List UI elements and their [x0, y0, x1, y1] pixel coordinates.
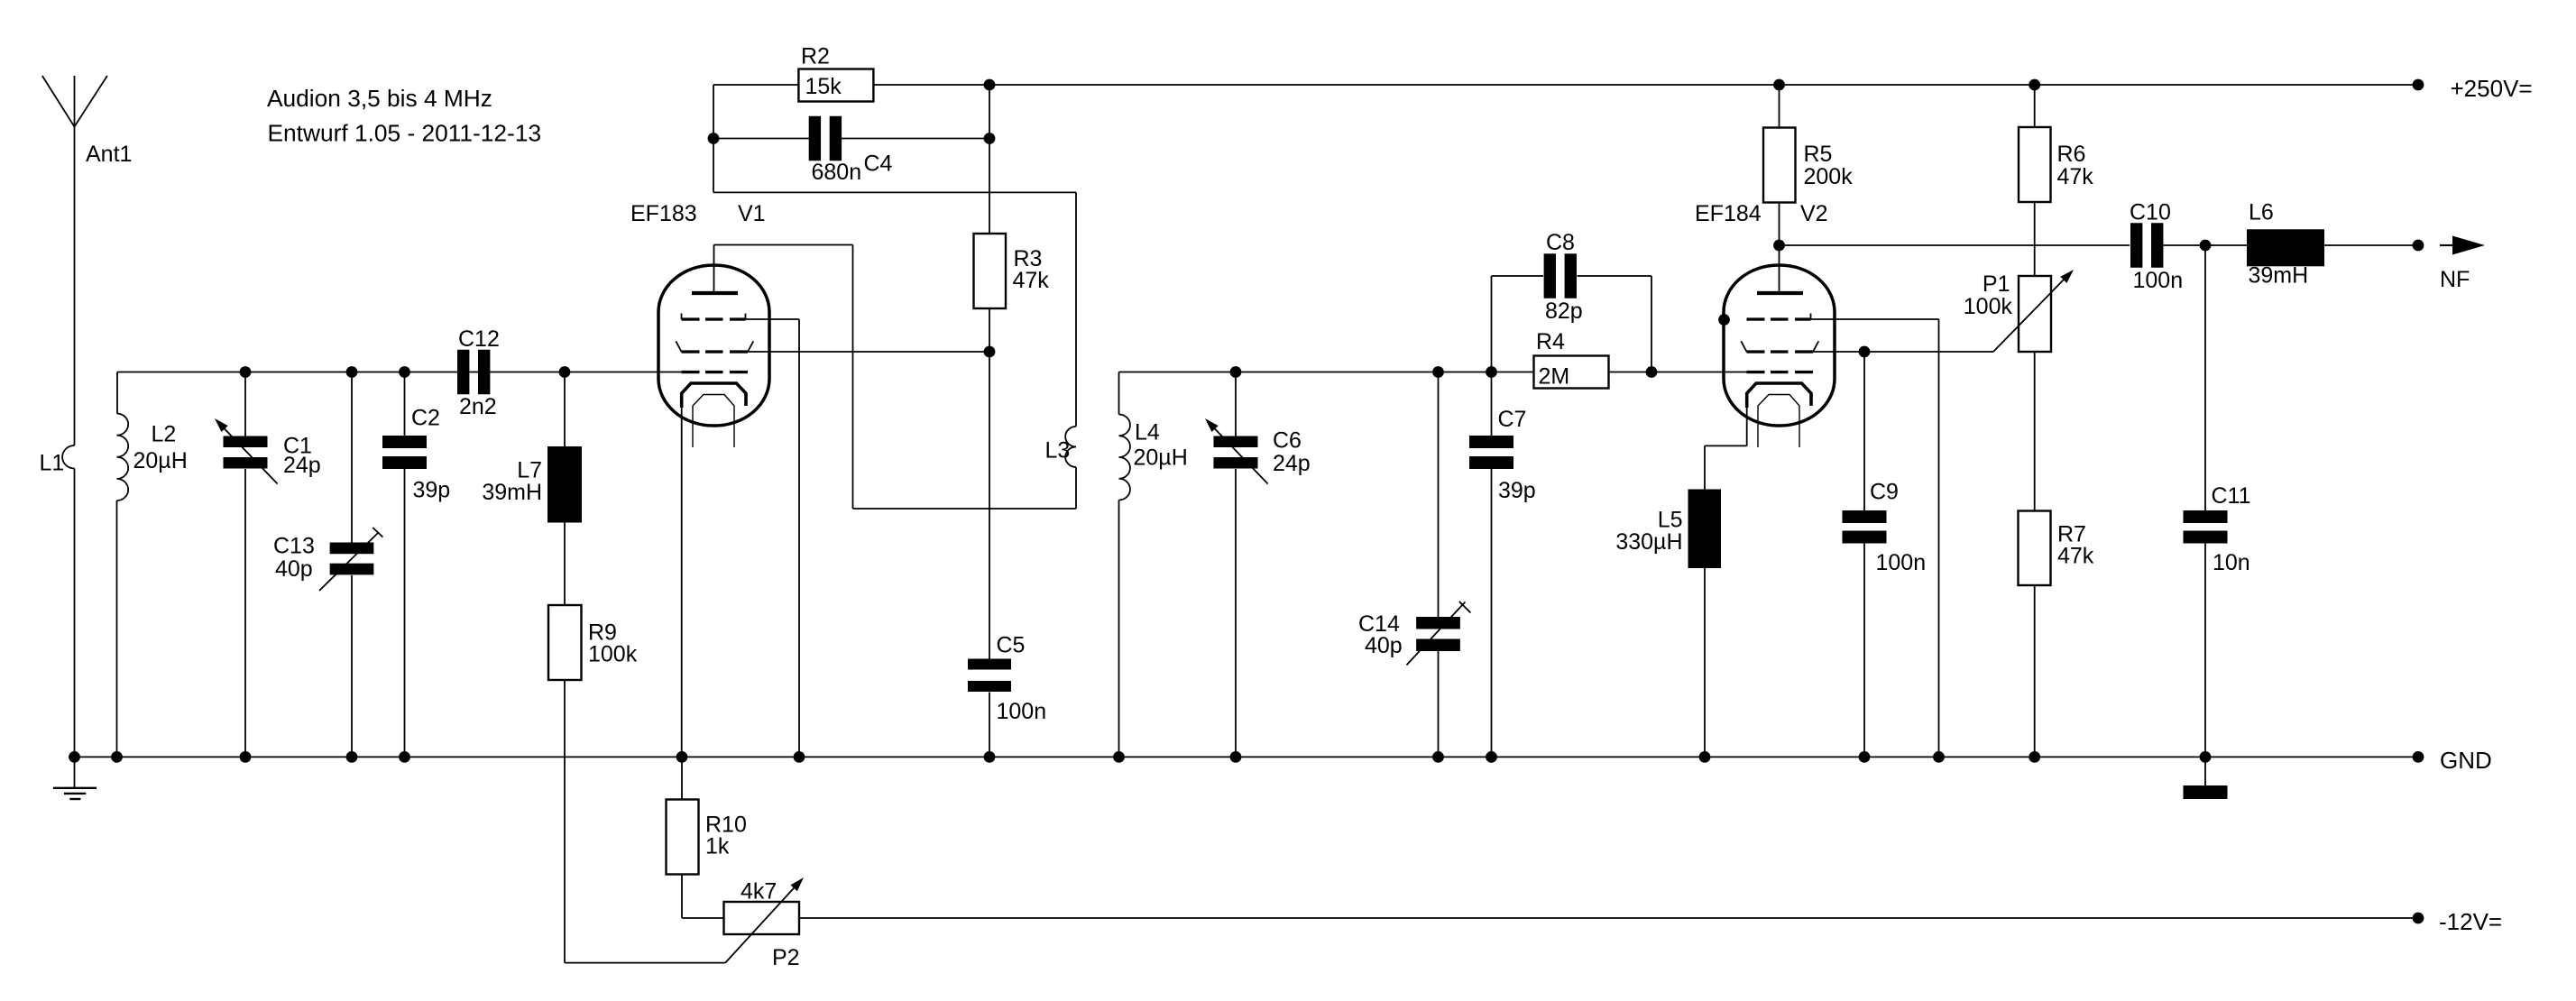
- wire rail to R5: [1779, 85, 1780, 128]
- svg-text:24p: 24p: [1273, 451, 1311, 476]
- wire node B to L3 top: [713, 192, 1076, 427]
- svg-text:100n: 100n: [997, 699, 1047, 724]
- svg-text:GND: GND: [2440, 747, 2492, 774]
- junction C9-GND: [1859, 751, 1871, 763]
- svg-text:R4: R4: [1536, 329, 1565, 354]
- inductor L4: [1119, 415, 1188, 500]
- wire L7 top: [564, 372, 566, 447]
- potentiometer P2: [724, 877, 805, 970]
- svg-text:15k: 15k: [805, 74, 842, 99]
- resistor R7: [2019, 511, 2094, 586]
- svg-text:C12: C12: [458, 326, 500, 352]
- svg-text:82p: 82p: [1545, 298, 1583, 324]
- tube V1 anode plate: [692, 291, 738, 295]
- svg-text:Audion 3,5 bis 4 MHz: Audion 3,5 bis 4 MHz: [267, 85, 492, 112]
- junction C7-GND: [1486, 751, 1497, 763]
- junction R3-g2 node: [984, 346, 996, 358]
- svg-text:2n2: 2n2: [459, 394, 497, 419]
- svg-text:EF183: EF183: [630, 201, 697, 226]
- wire V1 anode lead: [713, 245, 715, 294]
- wire C9 top: [1863, 352, 1865, 510]
- capacitor C7: [1469, 407, 1536, 503]
- svg-text:L1: L1: [40, 451, 65, 476]
- capacitor C13: [273, 528, 382, 591]
- wire L2 bottom: [116, 500, 118, 757]
- junction g2-C9: [1859, 346, 1871, 358]
- svg-text:R5: R5: [1804, 142, 1833, 167]
- capacitor C6: [1205, 418, 1311, 484]
- wire R3 to C5: [989, 308, 990, 659]
- svg-text:-12V=: -12V=: [2439, 908, 2502, 935]
- wire GND rail: [75, 756, 2419, 758]
- resistor R3: [974, 234, 1050, 308]
- terminal NF: [2413, 236, 2485, 293]
- tube V2 cathode: [1747, 383, 1811, 408]
- wire R2 left: [713, 85, 798, 192]
- junction L5-GND: [1699, 751, 1711, 763]
- svg-text:C9: C9: [1870, 480, 1899, 505]
- wire L3 bottom: [1075, 467, 1077, 509]
- svg-text:20µH: 20µH: [1134, 445, 1188, 471]
- svg-text:C2: C2: [411, 406, 440, 431]
- wire L4 bottom: [1118, 500, 1120, 758]
- wire C2 bottom: [404, 469, 406, 757]
- chassis bar: [2184, 757, 2228, 799]
- tube V2 envelope: [1724, 265, 1835, 426]
- svg-text:V2: V2: [1800, 201, 1828, 226]
- svg-text:P2: P2: [772, 945, 800, 970]
- svg-text:NF: NF: [2440, 267, 2470, 292]
- svg-text:10n: 10n: [2213, 550, 2250, 575]
- antenna Ant1: [42, 76, 133, 445]
- resistor R6: [2019, 127, 2093, 202]
- inductor L1: [40, 445, 75, 476]
- inductor L5: [1615, 490, 1721, 569]
- inductor L2: [117, 414, 188, 501]
- junction C5-GND: [984, 751, 996, 763]
- tube V2 heater: [1758, 395, 1799, 448]
- wire L6 to NF: [2324, 244, 2418, 246]
- svg-text:P1: P1: [1983, 271, 2010, 297]
- svg-text:4k7: 4k7: [741, 879, 777, 905]
- wire C2 top: [404, 372, 406, 436]
- capacitor C14: [1358, 602, 1470, 665]
- wire L5 to GND: [1704, 568, 1706, 757]
- wire V1 g3 to GND: [746, 319, 800, 757]
- svg-text:200k: 200k: [1804, 164, 1854, 189]
- capacitor C11: [2184, 483, 2251, 575]
- wire C6 bottom: [1235, 469, 1237, 757]
- svg-text:C11: C11: [2212, 483, 2251, 509]
- potentiometer P1: [1964, 270, 2074, 352]
- wire R6 to P1: [2034, 202, 2036, 276]
- svg-text:39p: 39p: [413, 478, 451, 503]
- wire C4 right lead: [842, 138, 989, 140]
- wire C7 bottom: [1491, 469, 1493, 757]
- tube V1 grid g2: [676, 341, 753, 353]
- svg-text:40p: 40p: [1365, 633, 1403, 658]
- wire GND to R10: [681, 757, 683, 799]
- wire C5 to GND: [989, 693, 990, 758]
- wire C1 top: [244, 372, 246, 436]
- junction C4 right: [984, 133, 996, 144]
- svg-text:39p: 39p: [1498, 478, 1536, 503]
- svg-text:C10: C10: [2130, 200, 2171, 225]
- wire C9 bottom: [1863, 544, 1865, 758]
- tube V2 grid g1: [1747, 371, 1814, 373]
- wire V2 cathode to L5: [1705, 400, 1747, 490]
- wire C6 top: [1235, 372, 1237, 436]
- junction V2 anode: [1773, 240, 1785, 252]
- wire C13 top: [351, 372, 353, 543]
- junction V1-cathode-GND: [676, 751, 688, 763]
- junction rail-R6: [2029, 79, 2040, 91]
- svg-text:24p: 24p: [283, 453, 321, 478]
- svg-text:L3: L3: [1045, 438, 1071, 464]
- svg-text:40p: 40p: [275, 556, 313, 582]
- junction V2 g3 envelope: [1718, 314, 1730, 326]
- junction C7-top: [1486, 366, 1497, 378]
- wire V2 anode lead: [1779, 245, 1780, 293]
- power terminal GND: [2413, 747, 2492, 774]
- power terminal +250V: [2413, 75, 2533, 102]
- svg-text:330µH: 330µH: [1615, 529, 1682, 555]
- junction L4-GND: [1113, 751, 1125, 763]
- power terminal -12V: [2413, 908, 2503, 935]
- wire C1 bottom: [244, 469, 246, 757]
- capacitor C4: [809, 116, 893, 185]
- svg-text:V1: V1: [738, 201, 766, 226]
- wire R10 to P2: [682, 875, 724, 919]
- junction L1-GND: [69, 751, 80, 763]
- resistor R4: [1534, 329, 1609, 390]
- capacitor C10: [2130, 200, 2183, 294]
- junction C8-g1: [1646, 366, 1658, 378]
- junction C1-bus: [240, 366, 252, 378]
- wire V1 g2 to R3 node: [748, 351, 989, 353]
- wire C4 left lead: [713, 138, 809, 140]
- wire R9 to P2 wiper: [565, 680, 725, 963]
- svg-text:Entwurf 1.05 - 2011-12-13: Entwurf 1.05 - 2011-12-13: [268, 120, 542, 147]
- svg-text:100k: 100k: [588, 642, 638, 667]
- svg-text:L4: L4: [1135, 420, 1160, 445]
- svg-text:C5: C5: [997, 633, 1026, 658]
- junction C14-top: [1432, 366, 1444, 378]
- svg-text:1k: 1k: [705, 834, 730, 859]
- svg-text:47k: 47k: [1013, 268, 1050, 293]
- junction rail-R5: [1773, 79, 1785, 91]
- wire rail to R6: [2034, 85, 2036, 127]
- wire C11 top: [2204, 245, 2206, 510]
- capacitor C5: [968, 633, 1046, 725]
- capacitor C12: [457, 326, 500, 419]
- label EF183 V1: [630, 201, 766, 226]
- wire V1 cathode to GND: [681, 400, 683, 757]
- svg-text:39mH: 39mH: [482, 480, 542, 505]
- junction V2-g3-GND: [1933, 751, 1945, 763]
- junction C6-top: [1230, 366, 1242, 378]
- junction L7-bus: [559, 366, 571, 378]
- wire L1 bottom: [74, 469, 76, 758]
- wire R5 to anode: [1779, 203, 1780, 246]
- wire C13 bottom: [351, 575, 353, 757]
- tube V2 grid g3: [1747, 314, 1811, 321]
- wire C10 to L6: [2163, 244, 2247, 246]
- tube V2 grid g2: [1741, 341, 1818, 353]
- wire C11 bottom: [2204, 544, 2206, 758]
- svg-text:Ant1: Ant1: [86, 142, 132, 167]
- junction C2-bus: [399, 366, 410, 378]
- title text: [267, 85, 541, 147]
- junction C2-GND: [399, 751, 410, 763]
- svg-text:100k: 100k: [1964, 294, 2013, 319]
- svg-text:680n: 680n: [812, 160, 862, 185]
- svg-text:C7: C7: [1498, 407, 1527, 432]
- svg-text:2M: 2M: [1539, 364, 1570, 390]
- junction rail-R3 column: [984, 79, 996, 91]
- capacitor C1: [215, 418, 321, 484]
- junction R2C4 left: [708, 133, 720, 144]
- junction C11-GND: [2200, 751, 2212, 763]
- wire V2 g3 to GND: [1811, 319, 1939, 757]
- svg-text:C13: C13: [273, 534, 315, 559]
- svg-text:20µH: 20µH: [133, 448, 188, 473]
- ground symbol: [53, 757, 97, 799]
- label EF184 V2: [1695, 201, 1828, 226]
- resistor R9: [548, 605, 638, 680]
- svg-text:C4: C4: [864, 152, 893, 177]
- resistor R10: [667, 800, 747, 875]
- tube V1 envelope: [658, 265, 769, 426]
- wire P1 to R7: [2034, 352, 2036, 511]
- wire -12V rail: [799, 917, 2418, 919]
- svg-text:100n: 100n: [2133, 268, 2184, 293]
- svg-text:L2: L2: [152, 422, 177, 447]
- wire +250V rail: [874, 84, 2419, 86]
- wire C8 right: [1578, 276, 1652, 372]
- svg-text:R6: R6: [2057, 142, 2086, 167]
- wire anode to C10: [1780, 244, 2130, 246]
- wire L4 top: [1118, 372, 1120, 415]
- svg-text:R2: R2: [801, 44, 830, 69]
- capacitor C8: [1544, 230, 1583, 324]
- wire C14 bottom: [1438, 651, 1440, 758]
- tube V2 anode plate: [1757, 291, 1803, 295]
- capacitor C9: [1843, 480, 1927, 576]
- svg-text:L6: L6: [2249, 200, 2274, 225]
- wire V1 anode to L3: [714, 245, 1077, 510]
- junction R7-GND: [2029, 751, 2040, 763]
- wire V2 g2 line: [1813, 351, 1993, 353]
- svg-text:C6: C6: [1273, 428, 1302, 454]
- tube V1 grid g3: [682, 314, 746, 321]
- junction C6-GND: [1230, 751, 1242, 763]
- capacitor C2: [382, 406, 450, 503]
- inductor L6: [2247, 200, 2324, 289]
- tube V1 heater: [693, 395, 734, 448]
- svg-text:+250V=: +250V=: [2451, 75, 2533, 102]
- junction V1-g3-GND: [794, 751, 805, 763]
- svg-text:47k: 47k: [2057, 164, 2094, 189]
- tube V1 grid g1: [682, 371, 749, 373]
- svg-text:EF184: EF184: [1695, 201, 1762, 226]
- junction C1-GND: [240, 751, 252, 763]
- svg-text:47k: 47k: [2057, 544, 2094, 569]
- wire C8 left: [1492, 276, 1544, 372]
- tube V1 cathode: [682, 383, 746, 408]
- junction C13-bus: [346, 366, 358, 378]
- wire R7 to GND: [2034, 585, 2036, 757]
- svg-text:39mH: 39mH: [2249, 263, 2309, 289]
- resistor R2: [798, 44, 873, 102]
- junction L2-GND: [111, 751, 123, 763]
- junction C10-C11: [2200, 240, 2212, 252]
- wire C7 top: [1491, 372, 1493, 436]
- svg-text:100n: 100n: [1876, 550, 1927, 575]
- junction C14-GND: [1432, 751, 1444, 763]
- inductor L7: [482, 446, 582, 523]
- svg-text:C8: C8: [1546, 230, 1575, 255]
- resistor R5: [1763, 128, 1853, 203]
- wire rail to R3: [989, 85, 990, 234]
- wire grid line: [1119, 372, 1748, 373]
- inductor L3: [1045, 427, 1077, 467]
- wire signal bus: [117, 372, 682, 414]
- wire L7-R9: [564, 523, 566, 606]
- junction C13-GND: [346, 751, 358, 763]
- wire C14 top: [1438, 372, 1440, 618]
